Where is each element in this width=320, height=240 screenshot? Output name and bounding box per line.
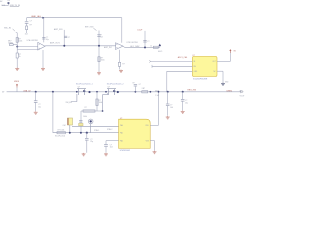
svg-text:100k: 100k — [83, 116, 87, 118]
svg-text:StickPowerSwitch_1: StickPowerSwitch_1 — [76, 82, 93, 85]
svg-text:StickPowerSwitch_2: StickPowerSwitch_2 — [107, 82, 124, 85]
svg-text:U?B LMV358: U?B LMV358 — [126, 42, 137, 44]
svg-text:XC6206P332MR: XC6206P332MR — [193, 79, 208, 81]
svg-text:REG_3V3: REG_3V3 — [188, 90, 197, 92]
svg-text:MIC_IN: MIC_IN — [4, 28, 11, 30]
svg-text:R?: R? — [30, 25, 32, 27]
svg-text:AMP_FB1: AMP_FB1 — [54, 28, 63, 31]
svg-text:104: 104 — [110, 147, 113, 149]
svg-text:C?: C? — [68, 37, 70, 39]
svg-text:FB?: FB? — [142, 88, 145, 90]
svg-text:C?: C? — [100, 34, 102, 36]
svg-text:Q?: Q? — [78, 86, 80, 88]
svg-text:1k: 1k — [19, 56, 21, 58]
svg-text:SW_EN: SW_EN — [66, 102, 73, 104]
svg-text:VSS: VSS — [146, 140, 149, 142]
svg-text:10u: 10u — [38, 106, 41, 108]
svg-text:R?: R? — [85, 107, 87, 109]
svg-text:LEAD_LAG: LEAD_LAG — [31, 15, 41, 18]
svg-text:C?: C? — [147, 41, 149, 43]
svg-text:XTAL1: XTAL1 — [94, 129, 99, 132]
svg-text:AMP_OUT1: AMP_OUT1 — [50, 42, 60, 45]
svg-text:XTAL2: XTAL2 — [107, 128, 112, 131]
svg-text:R?: R? — [122, 63, 124, 65]
svg-text:22p: 22p — [90, 141, 93, 143]
svg-text:A?: A? — [0, 0, 2, 3]
svg-text:100k: 100k — [19, 41, 23, 43]
svg-text:AMP_IN2: AMP_IN2 — [104, 46, 112, 49]
svg-text:100k: 100k — [99, 102, 103, 104]
svg-text:ADC_RAW: ADC_RAW — [130, 45, 139, 48]
svg-text:ADC1_CH0: ADC1_CH0 — [178, 56, 187, 59]
svg-text:104: 104 — [170, 107, 173, 109]
svg-text:1k: 1k — [150, 46, 152, 48]
svg-text:C?: C? — [30, 21, 32, 23]
svg-text:104: 104 — [100, 36, 103, 38]
svg-text:10p: 10p — [46, 39, 49, 41]
svg-text:StickPushed: StickPushed — [55, 135, 65, 138]
svg-text:D?: D? — [139, 84, 141, 86]
svg-text:5VREG: 5VREG — [226, 91, 232, 93]
svg-text:R? 100k: R? 100k — [58, 129, 65, 131]
svg-text:OUT: OUT — [212, 61, 215, 63]
svg-text:VBUS: VBUS — [14, 81, 20, 83]
svg-text:U?A LMV358: U?A LMV358 — [27, 39, 38, 42]
svg-text:0.1uF: 0.1uF — [137, 29, 143, 31]
svg-text:B?: B? — [133, 82, 135, 84]
svg-text:U?: U? — [120, 118, 122, 120]
svg-text:USB_5V: USB_5V — [23, 90, 31, 92]
svg-text:STM32F042: STM32F042 — [120, 150, 130, 152]
svg-text:10u: 10u — [185, 102, 188, 104]
svg-text:104: 104 — [25, 33, 28, 35]
svg-text:Q?: Q? — [108, 86, 110, 88]
svg-text:REF_1V65: REF_1V65 — [85, 27, 94, 29]
svg-text:100k: 100k — [101, 60, 105, 62]
